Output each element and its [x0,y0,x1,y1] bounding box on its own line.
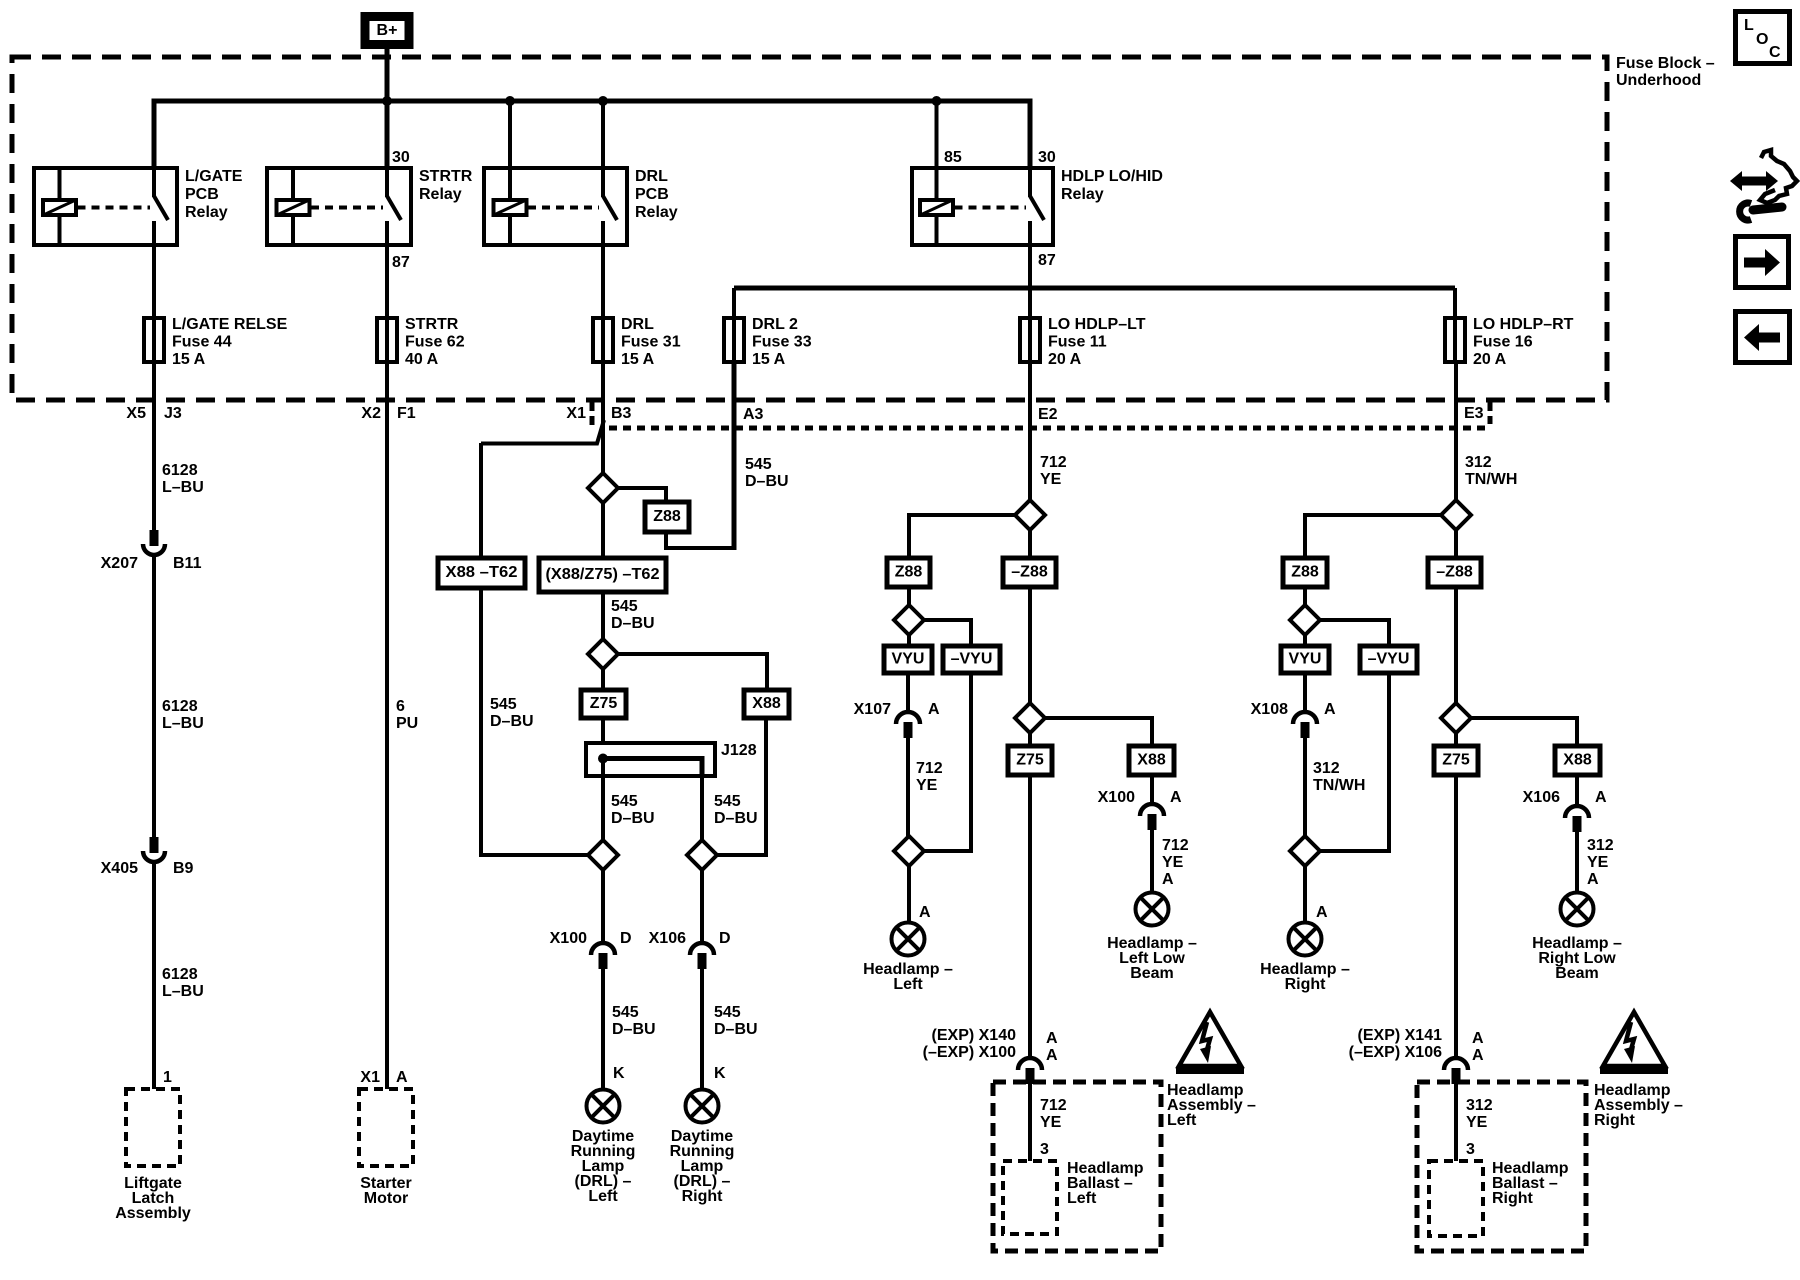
svg-text:B3: B3 [611,405,632,422]
wire -Z88 down to splice4 right [1454,587,1458,703]
splice diamond DRL splice 1 [588,473,618,503]
relay L/GATE PCB Relay: switch [154,168,168,245]
splice/connector box -Z88 splice (right headlamp) [1428,558,1481,587]
wire X88-T62 long branch down [481,588,588,855]
svg-text:L: L [1744,17,1754,34]
svg-text:D–BU: D–BU [611,615,655,632]
svg-text:20 A: 20 A [1048,351,1082,368]
svg-text:40 A: 40 A [405,351,439,368]
wire 545 D-BU fuse 31 to splice [601,362,605,473]
headlamp assembly right label [1594,1082,1683,1129]
wire X107 to splice3 [906,738,910,836]
headlamp ballast left box [1003,1161,1057,1234]
svg-text:L–BU: L–BU [162,715,204,732]
headlamp ballast right box [1429,1161,1483,1236]
splice/connector box Z88 splice (left headlamp) [887,558,930,587]
wire label 312 YE A (low beam right) [1587,837,1614,888]
svg-text:D–BU: D–BU [714,810,758,827]
wire -Z88 down to splice4 [1028,587,1032,703]
relay DRL PCB Relay: switch [603,168,617,245]
svg-text:A: A [1472,1047,1484,1064]
svg-text:Right: Right [1492,1190,1534,1207]
wire Z88 to DRL2 feed [666,532,734,548]
svg-text:(–EXP) X100: (–EXP) X100 [923,1044,1016,1061]
svg-text:B11: B11 [173,555,202,572]
wire 312 TN/WH fuse 16 down [1454,362,1458,500]
wire label 545 D-BU (left of J128 out) [611,793,655,827]
connector label A3 [743,406,764,423]
wire label 312 YE (ballast right) [1466,1097,1493,1131]
svg-text:712: 712 [1162,837,1189,854]
svg-text:J128: J128 [721,742,757,759]
splice/connector box Z75 splice (right headlamp) [1434,746,1478,775]
svg-text:X207: X207 [101,555,138,572]
splice diamond right headlamp splice 3 [1290,836,1320,866]
wire label 712 YE (X107) [916,760,943,794]
svg-text:YE: YE [1162,854,1184,871]
wire Z75 to X140 [1028,775,1032,1058]
starter motor box [359,1089,413,1166]
svg-text:X88 –T62: X88 –T62 [446,564,518,581]
pin 30 STRTR [392,149,410,166]
wire X100 A to left low beam [1150,830,1154,892]
junction dot bus junction HDLP coil [932,96,942,106]
splice diamond DRL splice 3 (left) [588,840,618,870]
svg-text:Fuse 33: Fuse 33 [752,334,812,351]
connector label (-EXP) X100 [923,1044,1016,1061]
svg-text:545: 545 [490,696,517,713]
svg-text:545: 545 [612,1004,639,1021]
svg-text:312: 312 [1587,837,1614,854]
svg-text:DRL: DRL [621,316,654,333]
wire X108 to splice3 right [1303,738,1307,836]
lamp headlamp right low beam [1561,893,1594,926]
svg-text:X107: X107 [854,701,891,718]
junction dot bus junction DRL switch [598,96,608,106]
svg-text:PCB: PCB [635,186,669,203]
relay STRTR Relay: coil [277,168,310,245]
svg-text:Z75: Z75 [590,695,618,712]
relay STRTR Relay: coil-to-switch dashed link [311,206,383,210]
pin 85 HDLP [944,149,962,166]
svg-text:K: K [714,1065,726,1082]
wire X141 into assembly [1454,1084,1458,1161]
svg-text:X1: X1 [360,1069,380,1086]
svg-text:Fuse Block –: Fuse Block – [1616,55,1715,72]
in-line connector X405 / B9 [143,837,165,862]
svg-text:Relay: Relay [1061,186,1104,203]
relay DRL PCB Relay: box [484,168,627,245]
connector label X2 [361,405,381,422]
svg-text:Right: Right [682,1188,724,1205]
wire label 6 PU [396,698,418,732]
wire X106 A to right low beam [1575,832,1579,892]
wire 6128 L-BU fuse 44 to X207 [152,362,156,530]
splice/connector box Z88 splice (DRL) [645,502,689,532]
fuse DRL 2 Fuse 33 [724,318,744,362]
in-line connector X106 / A [1565,806,1589,832]
svg-text:(EXP) X141: (EXP) X141 [1358,1027,1443,1044]
svg-text:STRTR: STRTR [419,168,473,185]
svg-text:–VYU: –VYU [951,651,993,668]
connector label D (left DRL) [620,930,632,947]
headlamp left label [863,961,953,993]
svg-text:–Z88: –Z88 [1436,564,1473,581]
relay L/GATE PCB Relay: coil [43,168,76,245]
svg-text:Z88: Z88 [1291,564,1319,581]
in-line connector X141 / X106 (EXP) [1444,1058,1468,1084]
svg-text:A: A [1324,701,1336,718]
splice/connector box -Z88 splice (left headlamp) [1003,558,1056,587]
wire label 6128 L-BU (upper) [162,462,204,496]
splice/connector box Z75 splice (left headlamp) [1008,746,1052,775]
wire (X88/Z75)-T62 down [601,592,605,639]
splice diamond left headlamp splice 4 [1015,703,1045,733]
connector label A (X100) [1170,789,1182,806]
wire label 545 D-BU (A3) [745,456,789,490]
relay HDLP LO/HID Relay: label [1061,168,1163,203]
wire label 6128 L-BU (lower) [162,966,204,1000]
svg-text:6128: 6128 [162,462,198,479]
wire L/GATE relay to fuse 44 [152,245,156,362]
wire J128 right output down [700,776,704,840]
svg-text:L/GATE RELSE: L/GATE RELSE [172,316,288,333]
svg-text:6: 6 [396,698,405,715]
svg-text:(–EXP) X106: (–EXP) X106 [1349,1044,1442,1061]
svg-text:A: A [928,701,940,718]
connector label X5 [126,405,146,422]
liftgate latch assembly label [115,1175,191,1222]
B+ power box [365,17,409,45]
relay HDLP LO/HID Relay: coil [920,168,953,245]
svg-text:C: C [1769,44,1781,61]
wire splice4 to X88 right [1471,718,1577,746]
relay HDLP LO/HID Relay: switch [1030,168,1044,245]
wire splice4 to Z75 left [1028,733,1032,746]
svg-text:–Z88: –Z88 [1011,564,1048,581]
svg-text:Fuse 11: Fuse 11 [1048,334,1107,351]
connector label X100 A [1098,789,1135,806]
splice diamond right headlamp splice 2 [1290,605,1320,635]
connector label (EXP) X140 [932,1027,1017,1044]
in-line connector X106 / D [690,943,714,969]
svg-text:B+: B+ [377,22,398,39]
connector label B3 [611,405,632,422]
wire X140 into assembly [1028,1084,1032,1161]
svg-text:Assembly: Assembly [115,1205,191,1222]
svg-text:YE: YE [1466,1114,1488,1131]
svg-text:D–BU: D–BU [714,1021,758,1038]
wire splice4 to X88 left [1045,718,1152,746]
warning triangle right headlamp assembly [1600,1012,1668,1071]
svg-text:YE: YE [1587,854,1609,871]
svg-text:D: D [620,930,632,947]
svg-text:312: 312 [1313,760,1340,777]
svg-text:712: 712 [1040,1097,1067,1114]
headlamp right low beam label [1532,935,1622,982]
svg-text:X108: X108 [1251,701,1288,718]
liftgate latch assembly box [126,1089,180,1166]
svg-text:Fuse 62: Fuse 62 [405,334,465,351]
splice/connector box X88 splice (left headlamp) [1129,746,1174,775]
svg-text:15 A: 15 A [172,351,206,368]
relay L/GATE PCB Relay: coil-to-switch dashed link [78,206,151,210]
wire label 312 TN/WH (E3) [1465,454,1517,488]
pin K left DRL lamp [613,1065,625,1082]
wire drop to fuse 16 [1453,288,1457,362]
svg-text:PCB: PCB [185,186,219,203]
connector label E2 [1038,406,1058,423]
wire label 545 D-BU (below T62) [611,598,655,632]
service icon: double arrow, vehicle outline and wrench [1730,150,1797,220]
connector label A (X108) [1324,701,1336,718]
splice pack J128 [586,743,715,776]
svg-text:(X88/Z75) –T62: (X88/Z75) –T62 [546,566,660,583]
svg-text:A: A [1162,871,1174,888]
svg-text:Beam: Beam [1130,965,1174,982]
wire splice2 to Z75 [601,669,605,690]
in-line connector X108 / A [1293,712,1317,738]
svg-text:TN/WH: TN/WH [1465,471,1517,488]
wire splice2 to -VYU right [1320,620,1389,646]
connector label A A (X140) [1046,1030,1058,1047]
wire branch to X88-T62 horizontal [481,420,604,444]
svg-text:312: 312 [1466,1097,1493,1114]
wire 545 D-BU from fuse 33 (A3) [732,362,737,550]
wire label 312 TN/WH (X108) [1313,760,1365,794]
connector label D (right DRL) [719,930,731,947]
wire splice1 to -Z88 right [1454,530,1458,558]
svg-text:LO HDLP–RT: LO HDLP–RT [1473,316,1574,333]
headlamp assembly left label [1167,1082,1256,1129]
svg-text:A: A [1170,789,1182,806]
wire splice4 to Z75 right [1454,733,1458,746]
svg-text:Left: Left [1167,1112,1197,1129]
svg-text:–VYU: –VYU [1368,651,1410,668]
wire Z75 to J128 [601,718,605,743]
headlamp ballast left label [1067,1160,1144,1207]
warning triangle left headlamp assembly [1176,1012,1244,1071]
fuse DRL 2 Fuse 33: label [752,316,812,368]
svg-text:D: D [719,930,731,947]
splice diamond left headlamp splice 2 [894,605,924,635]
wire 6 PU fuse 62 to starter motor [385,362,389,1089]
svg-text:545: 545 [714,1004,741,1021]
headlamp assembly right box [1417,1082,1586,1251]
splice/connector box -VYU splice (left) [943,646,1000,673]
svg-text:X88: X88 [1563,752,1592,769]
svg-text:3: 3 [1466,1141,1475,1158]
wire X88 to X106 A [1575,775,1579,806]
dashed connector tick left (X1/B3) [590,402,595,426]
headlamp right label [1260,961,1350,993]
wire splice2 to X88 box [618,654,767,690]
wire HDLP 87 distribution bus [734,286,1455,291]
svg-text:A3: A3 [743,406,764,423]
wire bus drop to DRL relay switch [601,101,605,168]
svg-text:Motor: Motor [364,1190,408,1207]
connector label B11 [173,555,202,572]
wire splice1 to -Z88 [1028,530,1032,558]
junction dot J128 junction dot [598,754,608,764]
wire Z88 down to splice2 right [1303,587,1307,605]
wire splice4 to X106 D [700,870,704,943]
svg-text:TN/WH: TN/WH [1313,777,1365,794]
connector label A A 2 (X141) [1472,1047,1484,1064]
svg-text:X88: X88 [1137,752,1166,769]
dashed connector tick right (E3) [1488,402,1493,424]
pin 87 HDLP [1038,252,1056,269]
in-line connector X100 / A [1140,804,1164,830]
back arrow icon box [1736,312,1790,363]
splice/connector box connector box (X88/Z75) -T62 [539,558,666,592]
svg-text:Beam: Beam [1555,965,1599,982]
wire label 712 YE A (low beam left) [1162,837,1189,888]
forward arrow icon box [1736,237,1789,288]
svg-text:Left: Left [588,1188,618,1205]
svg-text:X100: X100 [1098,789,1135,806]
headlamp ballast right label [1492,1160,1569,1207]
wire Z75 to X141 [1454,775,1458,1058]
svg-text:A: A [919,904,931,921]
fuse LO HDLP-LT Fuse 11: label [1048,316,1146,368]
wire Z88 down to splice2 [907,587,911,605]
connector label X100 D [550,930,587,947]
wire label 6128 L-BU (middle) [162,698,204,732]
connector label X1 starter [360,1069,380,1086]
relay STRTR Relay: box [267,168,411,245]
wire splice to Z88 right branch [1305,515,1441,558]
wire splice1 to (X88/Z75)-T62 [601,503,605,558]
svg-text:O: O [1756,31,1768,48]
fuse DRL Fuse 31 [593,318,613,362]
svg-text:L/GATE: L/GATE [185,168,243,185]
svg-text:A: A [1587,871,1599,888]
splice/connector box connector box X88 -T62 [438,558,525,588]
fuse STRTR Fuse 62: label [405,316,465,368]
wire B+ vertical feed [385,49,390,168]
lamp headlamp left low beam [1136,893,1169,926]
svg-text:545: 545 [714,793,741,810]
wire bus drop to HDLP relay coil [935,101,939,168]
lamp daytime running lamp right [686,1090,719,1123]
fuse L/GATE RELSE Fuse 44 [144,318,164,362]
svg-text:X106: X106 [1523,789,1560,806]
wire splice3 to X100 D [601,870,605,943]
wire 6128 L-BU X207 to X405 [152,556,156,837]
lamp headlamp left [892,923,925,956]
wire label 545 D-BU (right of J128 out) [714,793,758,827]
svg-text:20 A: 20 A [1473,351,1507,368]
svg-text:A: A [1595,789,1607,806]
svg-text:J3: J3 [164,405,182,422]
pin A headlamp left [919,904,931,921]
label J128 [721,742,757,759]
wire drop to fuse 33 [732,288,736,362]
svg-text:E2: E2 [1038,406,1058,423]
svg-text:545: 545 [745,456,772,473]
svg-text:Z75: Z75 [1442,752,1470,769]
svg-text:Underhood: Underhood [1616,72,1701,89]
splice diamond DRL splice 2 [588,639,618,669]
wire X106 D to DRL lamp right [700,969,704,1089]
connector label (-EXP) X106 [1349,1044,1442,1061]
wire 6128 L-BU X405 to liftgate latch [152,863,156,1089]
fuse LO HDLP-RT Fuse 16 [1445,318,1465,362]
svg-text:6128: 6128 [162,966,198,983]
daytime running lamp right label [670,1128,735,1205]
svg-text:Relay: Relay [185,204,228,221]
wire splice to Z88 left branch [909,515,1015,558]
svg-text:D–BU: D–BU [612,1021,656,1038]
svg-text:Fuse 16: Fuse 16 [1473,334,1533,351]
svg-text:Right: Right [1594,1112,1636,1129]
wire STRTR relay to fuse 62 [385,245,389,362]
splice diamond right headlamp splice 4 [1441,703,1471,733]
splice diamond DRL splice 4 (right) [687,840,717,870]
svg-text:B9: B9 [173,860,194,877]
svg-text:X2: X2 [361,405,381,422]
splice diamond right headlamp splice 1 [1441,500,1471,530]
svg-text:VYU: VYU [892,651,925,668]
wire VYU to X108 [1303,673,1307,712]
svg-text:A: A [1046,1047,1058,1064]
wire splice to Z88 link [618,488,666,502]
fuse L/GATE RELSE Fuse 44: label [172,316,288,368]
splice/connector box Z88 splice (right headlamp) [1283,558,1327,587]
svg-text:Relay: Relay [635,204,678,221]
svg-text:F1: F1 [397,405,416,422]
lamp headlamp right [1289,923,1322,956]
connector label F1 [397,405,416,422]
splice/connector box splice box X88 (DRL) [744,690,789,718]
svg-text:X100: X100 [550,930,587,947]
splice/connector box VYU splice (left) [884,646,932,673]
relay DRL PCB Relay: label [635,168,678,221]
splice/connector box -VYU splice (right) [1360,646,1417,673]
svg-text:VYU: VYU [1289,651,1322,668]
pin 1 liftgate latch [163,1069,172,1086]
wire X88 box down to splice4 [717,718,766,855]
connector label X107 [854,701,891,718]
junction dot bus junction at B+ [382,96,392,106]
fuse block underhood dashed border [12,57,1607,400]
svg-text:87: 87 [1038,252,1056,269]
svg-text:STRTR: STRTR [405,316,459,333]
wire label 545 D-BU (X88-T62 branch) [490,696,534,730]
LOC reference icon box [1736,12,1790,64]
svg-text:L–BU: L–BU [162,983,204,1000]
lamp daytime running lamp left [587,1090,620,1123]
svg-text:30: 30 [1038,149,1056,166]
wire label 712 YE (ballast left) [1040,1097,1067,1131]
svg-text:X1: X1 [566,405,586,422]
wire VYU to X107 [906,673,910,712]
in-line connector X140 / X100 (EXP) [1018,1058,1042,1084]
fuse DRL Fuse 31: label [621,316,681,368]
svg-text:DRL 2: DRL 2 [752,316,798,333]
fuse LO HDLP-RT Fuse 16: label [1473,316,1574,368]
svg-text:A: A [1316,904,1328,921]
svg-text:X106: X106 [649,930,686,947]
relay L/GATE PCB Relay: label [185,168,243,221]
svg-text:312: 312 [1465,454,1492,471]
connector label X405 [101,860,138,877]
svg-text:A: A [1472,1030,1484,1047]
junction dot bus junction DRL coil [505,96,515,106]
svg-text:A: A [396,1069,408,1086]
connector label J3 [164,405,182,422]
